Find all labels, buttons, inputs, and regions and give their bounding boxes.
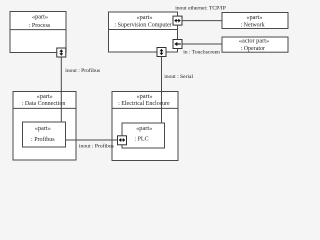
port inout Profibus on Process (updown arrow) bbox=[57, 48, 66, 57]
wire Profibus to PLC port bbox=[66, 139, 118, 141]
svg-text:: Profibus: : Profibus bbox=[31, 136, 55, 143]
part Supervision Computer bbox=[109, 12, 178, 52]
wire Supervision port to Operator bbox=[182, 43, 222, 45]
svg-text:: Process: : Process bbox=[29, 23, 51, 29]
svg-text:: Supervision Computer: : Supervision Computer bbox=[114, 22, 171, 28]
svg-text:«part»: «part» bbox=[246, 14, 262, 21]
part Process bbox=[10, 12, 66, 53]
port inout ethernet on Supervision Computer (leftright arrow) bbox=[173, 16, 182, 25]
port inout Serial on Supervision Computer (updown arrow) bbox=[157, 48, 166, 57]
part Data Connection bbox=[13, 92, 76, 161]
svg-text:«part»: «part» bbox=[136, 14, 152, 21]
svg-text:inout : Serial: inout : Serial bbox=[164, 74, 193, 80]
svg-text:«part»: «part» bbox=[35, 125, 51, 132]
actor part Operator bbox=[222, 37, 288, 52]
port in Touchscreen on Supervision Computer (left arrow) bbox=[173, 40, 182, 49]
wire Process port to Profibus bbox=[60, 57, 62, 122]
svg-text:inout ethernet: TCP/IP: inout ethernet: TCP/IP bbox=[175, 6, 226, 12]
svg-text:«actor part»: «actor part» bbox=[239, 37, 269, 44]
part Network bbox=[222, 13, 288, 29]
port inout Profibus on PLC (leftright arrow) bbox=[118, 136, 127, 145]
part Profibus (inner) bbox=[23, 122, 66, 147]
wire Supervision serial port to PLC bbox=[161, 56, 163, 123]
svg-text:in : Touchscreen: in : Touchscreen bbox=[183, 50, 220, 56]
svg-text:«part»: «part» bbox=[136, 93, 152, 100]
svg-text:«part»: «part» bbox=[32, 13, 48, 20]
svg-text:: PLC: : PLC bbox=[134, 136, 148, 142]
part PLC (inner) bbox=[122, 123, 165, 148]
svg-text:inout : Profibus: inout : Profibus bbox=[65, 67, 100, 74]
svg-text:: Network: : Network bbox=[241, 22, 265, 28]
svg-text:inout : Profibus: inout : Profibus bbox=[79, 143, 114, 150]
svg-text:: Electrical Enclosure: : Electrical Enclosure bbox=[118, 101, 170, 107]
svg-text:: Operator: : Operator bbox=[241, 46, 266, 52]
wire Supervision port to Network bbox=[182, 20, 222, 22]
svg-text:«part»: «part» bbox=[37, 93, 53, 100]
part Electrical Enclosure bbox=[112, 92, 178, 161]
svg-text:: Data Connection: : Data Connection bbox=[22, 101, 66, 107]
svg-text:«part»: «part» bbox=[136, 125, 152, 132]
